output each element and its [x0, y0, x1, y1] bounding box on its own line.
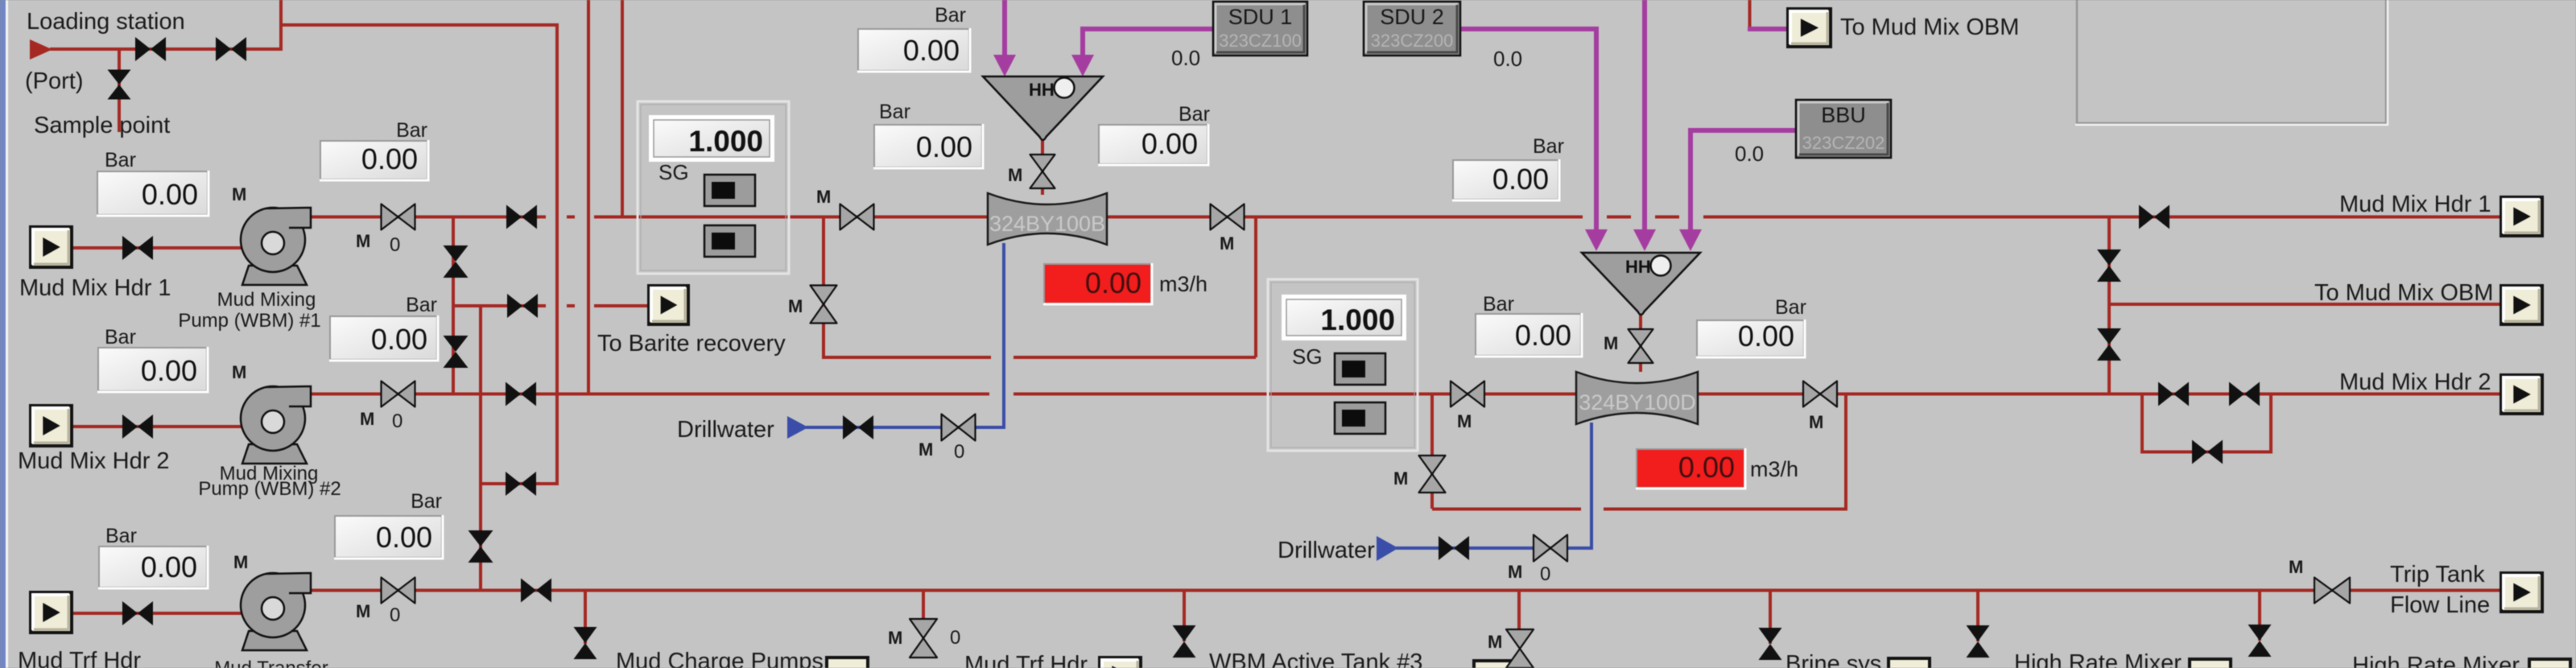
valve M drillwater2 (gray) — [1534, 535, 1567, 562]
svg-text:0.00: 0.00 — [1678, 451, 1735, 484]
valve H2 To Barite x649 — [507, 294, 538, 318]
svg-text:WBM Active Tank #3: WBM Active Tank #3 — [1209, 649, 1422, 668]
valve M mixer2 downstream (gray) — [1803, 381, 1837, 407]
wire: long vertical x692 — [555, 23, 559, 485]
svg-text:1.000: 1.000 — [688, 125, 763, 158]
wire: Mud Mix Hdr 2 bypass — [2142, 394, 2271, 452]
wire: hopper1 tip to mixer1 — [1041, 138, 1044, 195]
svg-text:M: M — [1809, 412, 1823, 432]
svg-text:0: 0 — [954, 441, 964, 463]
button Mud Charge Pumps — [827, 658, 868, 668]
wire: mud transfer header H4 — [311, 589, 2501, 592]
svg-text:0.00: 0.00 — [1141, 127, 1198, 160]
left window border strip — [0, 0, 6, 668]
svg-text:SDU 2: SDU 2 — [1380, 5, 1444, 29]
svg-text:0.00: 0.00 — [141, 550, 197, 583]
svg-text:0: 0 — [1540, 563, 1550, 585]
svg-text:Mud Transfer: Mud Transfer — [214, 658, 328, 668]
SG panel 2 frame — [1268, 279, 1418, 451]
wire: To Mud Mix OBM branch — [2109, 303, 2501, 306]
wire: SDU 2 purple line to hopper2 — [1460, 29, 1596, 230]
svg-text:To Mud Mix OBM: To Mud Mix OBM — [1840, 14, 2019, 40]
svg-text:0: 0 — [950, 627, 960, 649]
svg-text:0: 0 — [390, 234, 400, 256]
button Mud Mix Hdr 2 — [31, 406, 72, 446]
svg-text:Bar: Bar — [105, 326, 136, 348]
toggle SG2 b — [1335, 402, 1385, 434]
valve pump3 suction — [122, 601, 153, 625]
svg-text:Mud Mix Hdr 1: Mud Mix Hdr 1 — [19, 275, 171, 301]
flow indicator mixer2 m3/h — [1637, 449, 1744, 488]
svg-text:M: M — [2289, 557, 2303, 577]
valve Mud Mix Hdr2 a — [2158, 382, 2189, 406]
button Mud Trf Hdr bottom — [1100, 658, 1141, 668]
valve M mixer2 bypass (gray) — [1419, 456, 1446, 493]
svg-text:Loading station: Loading station — [27, 9, 185, 35]
wire: drop to Mud Trf Hdr — [922, 590, 925, 638]
mixer 324BY100B — [988, 193, 1107, 245]
valve M drillwater1 (gray) — [942, 414, 976, 441]
svg-text:(Port): (Port) — [25, 68, 84, 94]
svg-text:0.00: 0.00 — [1738, 320, 1794, 353]
svg-text:BBU: BBU — [1821, 103, 1866, 127]
svg-text:0.00: 0.00 — [141, 354, 197, 387]
svg-text:Mud Mix Hdr 2: Mud Mix Hdr 2 — [18, 448, 170, 474]
valve x2620 lower — [2097, 328, 2121, 361]
wire: drop to gray M valve x1887 — [1517, 590, 1521, 644]
flow indicator mixer1 m3/h — [1044, 264, 1151, 303]
valve drop Mud Charge Pumps — [574, 627, 597, 659]
SG display 1.000 (panel 1) — [649, 115, 774, 162]
valve drop High Rate Mixer 1 — [1967, 625, 1990, 658]
valve loading 1 — [135, 37, 166, 61]
svg-text:M: M — [888, 628, 902, 648]
button Mud Mix Hdr 1 — [31, 227, 72, 267]
valve H1 x648 — [506, 205, 537, 229]
svg-text:m3/h: m3/h — [1159, 272, 1207, 296]
svg-text:0.00: 0.00 — [142, 178, 198, 211]
svg-text:1.000: 1.000 — [1320, 303, 1395, 336]
valve M pump3 discharge (gray) — [382, 578, 415, 604]
button Trip Tank Flow Line — [2501, 573, 2542, 612]
valve M hopper2 outlet (gray) — [1629, 329, 1653, 363]
svg-text:0.00: 0.00 — [1085, 266, 1141, 299]
SG display 1.000 (panel 2) — [1282, 295, 1406, 340]
svg-text:0.00: 0.00 — [916, 130, 972, 163]
svg-text:Bar: Bar — [105, 149, 136, 171]
button Brine sys — [1889, 658, 1930, 668]
svg-text:0.00: 0.00 — [1492, 163, 1549, 196]
button High Rate Mixer 2 — [2529, 659, 2570, 668]
wire: drop to High Rate Mixer 1 — [1976, 590, 1979, 641]
svg-text:Bar: Bar — [1179, 103, 1210, 126]
svg-text:High Rate Mixer: High Rate Mixer — [2352, 653, 2520, 668]
svg-text:Bar: Bar — [1483, 293, 1514, 315]
wire: purple drop to hopper2 (center) — [1642, 0, 1647, 230]
valve pump1 suction — [122, 236, 153, 260]
valve M Trip Tank (gray) — [2314, 578, 2350, 604]
toggle SG1 b — [704, 225, 755, 257]
svg-text:0.00: 0.00 — [371, 323, 427, 356]
svg-text:Bar: Bar — [406, 294, 437, 316]
wire: pump1 discharge header H1 (Mud Mix Hdr 1 line) — [311, 216, 546, 219]
wire: sample point branch — [118, 49, 121, 132]
valve M pump1 discharge (gray) — [382, 204, 415, 230]
wire: pump transfer bypass loop y601 — [481, 482, 559, 485]
svg-text:HH: HH — [1029, 80, 1055, 100]
wire: To Barite recovery line H2 — [453, 304, 546, 307]
BBU box — [1796, 100, 1891, 158]
wire: mixer1 bypass loop — [822, 216, 825, 359]
svg-text:Bar: Bar — [1775, 296, 1806, 319]
svg-text:324BY100D: 324BY100D — [1579, 390, 1696, 414]
svg-text:SG: SG — [658, 160, 689, 184]
pump 3 — [242, 631, 307, 650]
pump 2 — [242, 444, 307, 464]
button To Mud Mix OBM right — [2501, 286, 2542, 324]
wire: pump3 suction — [71, 612, 242, 615]
SDU 1 box — [1213, 2, 1307, 56]
svg-text:Drillwater: Drillwater — [1278, 538, 1375, 563]
valve sample point — [108, 70, 131, 100]
valve M mixer1 bypass (gray) — [811, 286, 837, 324]
svg-text:Bar: Bar — [411, 490, 442, 513]
hopper 2 HH — [1582, 253, 1700, 315]
svg-text:High Rate Mixer: High Rate Mixer — [2014, 650, 2182, 668]
valve M mixer1 downstream (gray) — [1211, 204, 1245, 230]
hopper 1 HH — [983, 76, 1103, 140]
wire: top elbow from loading to x692 — [281, 23, 559, 27]
toggle SG1 a — [704, 175, 755, 206]
valve cross-tie x563 upper — [444, 245, 469, 278]
svg-text:Bar: Bar — [396, 119, 427, 142]
wire: drillwater 1 line — [787, 416, 808, 439]
wire: red stub top right x2173 — [1748, 0, 1752, 31]
SG panel 1 frame — [638, 101, 789, 274]
valve bypass loop y601 — [506, 472, 536, 496]
wire: pump2 suction — [71, 425, 242, 428]
valve drop Brine sys — [1759, 628, 1782, 660]
svg-text:Bar: Bar — [935, 4, 966, 27]
wire: vertical x2620 tie H1-H3 — [2107, 216, 2111, 395]
wire: drop to WBM Active Tank 3 — [1183, 590, 1186, 641]
svg-text:Mud Mix Hdr 1: Mud Mix Hdr 1 — [2339, 192, 2491, 217]
valve cross-tie x563 lower — [444, 336, 469, 368]
wire: drop to Brine sys — [1769, 590, 1772, 644]
svg-text:M: M — [1457, 411, 1472, 431]
SDU 2 box — [1364, 2, 1460, 56]
svg-text:0.00: 0.00 — [903, 34, 960, 67]
wire: BBU purple line to hopper2 — [1690, 130, 1796, 230]
svg-text:Bar: Bar — [1533, 135, 1564, 158]
wire: drillwater 2 line — [1377, 536, 1398, 561]
valve H3 x647 — [506, 382, 536, 406]
svg-text:0.00: 0.00 — [1515, 319, 1571, 352]
wire: SDU 1 purple line to hopper1 — [1083, 29, 1212, 56]
button To Mud Mix OBM top — [1788, 9, 1831, 47]
valve loading 2 — [216, 37, 246, 61]
wire: mixer2 bypass loop — [1430, 395, 1434, 509]
wire: SDU feed purple drop to hopper1 (left) — [1002, 0, 1007, 56]
wire: drop to High Rate Mixer 2 — [2258, 590, 2261, 641]
svg-text:M: M — [1220, 233, 1234, 254]
mixer 324BY100D — [1576, 372, 1698, 424]
svg-text:M: M — [360, 409, 374, 429]
valve M drop x1887 (gray) — [1506, 629, 1534, 668]
button High Rate Mixer 1 — [2190, 659, 2231, 668]
wire: pump2 discharge header H3 (Mud Mix Hdr 2 line) — [311, 393, 989, 396]
svg-text:Pump (WBM) #2: Pump (WBM) #2 — [198, 478, 341, 500]
valve M pump2 discharge (gray) — [382, 381, 415, 407]
valve H4 x666 — [521, 579, 551, 603]
valve black drillwater2 — [1439, 536, 1469, 560]
wire: vertical x597 to transfer header — [479, 306, 482, 592]
button To Barite recovery — [649, 286, 688, 324]
valve Mud Mix Hdr2 b — [2229, 382, 2260, 406]
svg-text:0: 0 — [392, 410, 402, 432]
svg-text:0.00: 0.00 — [376, 521, 432, 554]
svg-text:0.00: 0.00 — [361, 142, 418, 175]
svg-text:M: M — [232, 362, 246, 382]
button Mud Mix Hdr 1 right — [2501, 197, 2542, 236]
svg-text:Pump (WBM) #1: Pump (WBM) #1 — [178, 310, 320, 332]
valve black drillwater1 — [843, 415, 873, 439]
svg-text:Brine sys.: Brine sys. — [1785, 651, 1888, 668]
empty group frame top right — [2077, 0, 2386, 123]
svg-text:M: M — [919, 439, 933, 460]
valve drop High Rate Mixer 2 — [2248, 625, 2272, 657]
svg-text:SDU 1: SDU 1 — [1228, 5, 1293, 29]
wire: pump1 suction — [71, 246, 242, 249]
svg-text:M: M — [1008, 165, 1022, 185]
svg-text:M: M — [233, 552, 248, 572]
valve Mud Mix Hdr1 x2676 — [2139, 205, 2169, 229]
wire: drop to Mud Charge Pumps — [584, 590, 587, 644]
valve M mixer2 upstream (gray) — [1451, 381, 1484, 407]
svg-text:Trip Tank: Trip Tank — [2390, 562, 2485, 588]
valve M hopper1 outlet (gray) — [1030, 155, 1055, 188]
svg-text:M: M — [1488, 632, 1502, 652]
toggle SG2 a — [1335, 353, 1385, 385]
svg-text:Bar: Bar — [879, 101, 910, 123]
svg-text:323CZ100: 323CZ100 — [1219, 31, 1302, 51]
button WBM Active Tank 3 — [1474, 661, 1515, 668]
svg-text:M: M — [1393, 468, 1408, 489]
valve M drop x1147 (gray) — [910, 619, 937, 658]
svg-text:M: M — [1604, 333, 1618, 353]
pump 1 — [242, 266, 307, 285]
valve pump2 suction — [122, 414, 153, 439]
svg-text:Mud Mixing: Mud Mixing — [217, 289, 316, 311]
svg-text:Mud Trf Hdr: Mud Trf Hdr — [18, 648, 141, 668]
wire: cross-tie vertical x563 — [452, 216, 455, 395]
valve x597 lower — [469, 530, 493, 563]
svg-text:M: M — [356, 231, 370, 251]
svg-text:M: M — [788, 296, 803, 316]
wire: vertical feed at x349 — [279, 0, 283, 51]
svg-text:M: M — [232, 184, 246, 204]
loading station inlet arrow — [30, 39, 52, 60]
svg-text:Mud Charge Pumps: Mud Charge Pumps — [616, 649, 824, 668]
svg-text:Sample point: Sample point — [34, 113, 170, 138]
svg-text:Mud Mix Hdr 2: Mud Mix Hdr 2 — [2339, 369, 2491, 395]
svg-text:M: M — [816, 187, 831, 207]
button Mud Mix Hdr 2 right — [2501, 375, 2542, 414]
svg-text:Drillwater: Drillwater — [677, 417, 774, 443]
valve M mixer1 upstream (gray) — [840, 204, 874, 230]
svg-text:0.0: 0.0 — [1493, 47, 1522, 71]
svg-text:0.0: 0.0 — [1735, 142, 1764, 166]
valve drop WBM Active Tank — [1173, 625, 1196, 658]
svg-text:0: 0 — [390, 604, 400, 626]
svg-text:To Barite recovery: To Barite recovery — [597, 331, 786, 357]
valve x2620 upper — [2097, 249, 2121, 282]
wire: long vertical x773 — [621, 0, 624, 218]
svg-text:To Mud Mix OBM: To Mud Mix OBM — [2314, 280, 2493, 306]
svg-text:324BY100B: 324BY100B — [989, 212, 1105, 236]
svg-text:Mud Trf Hdr: Mud Trf Hdr — [964, 652, 1088, 668]
svg-text:M: M — [356, 601, 370, 621]
valve Mud Mix Hdr2 bypass — [2192, 440, 2223, 464]
svg-text:Flow Line: Flow Line — [2390, 592, 2490, 618]
svg-text:0.0: 0.0 — [1171, 46, 1200, 70]
wire: long vertical x731 — [587, 0, 590, 395]
svg-text:M: M — [1508, 562, 1522, 582]
svg-text:323CZ200: 323CZ200 — [1371, 31, 1454, 51]
wire: hopper2 tip to mixer2 — [1639, 313, 1642, 372]
svg-text:Bar: Bar — [105, 525, 137, 547]
button Mud Trf Hdr — [31, 592, 72, 633]
wire: loading station pipe — [50, 47, 281, 51]
wire: purple stub to To Mud Mix OBM button — [1748, 27, 1788, 31]
svg-text:m3/h: m3/h — [1750, 457, 1798, 481]
svg-text:HH: HH — [1625, 257, 1651, 277]
svg-text:323CZ202: 323CZ202 — [1802, 133, 1885, 153]
svg-text:SG: SG — [1292, 344, 1323, 369]
